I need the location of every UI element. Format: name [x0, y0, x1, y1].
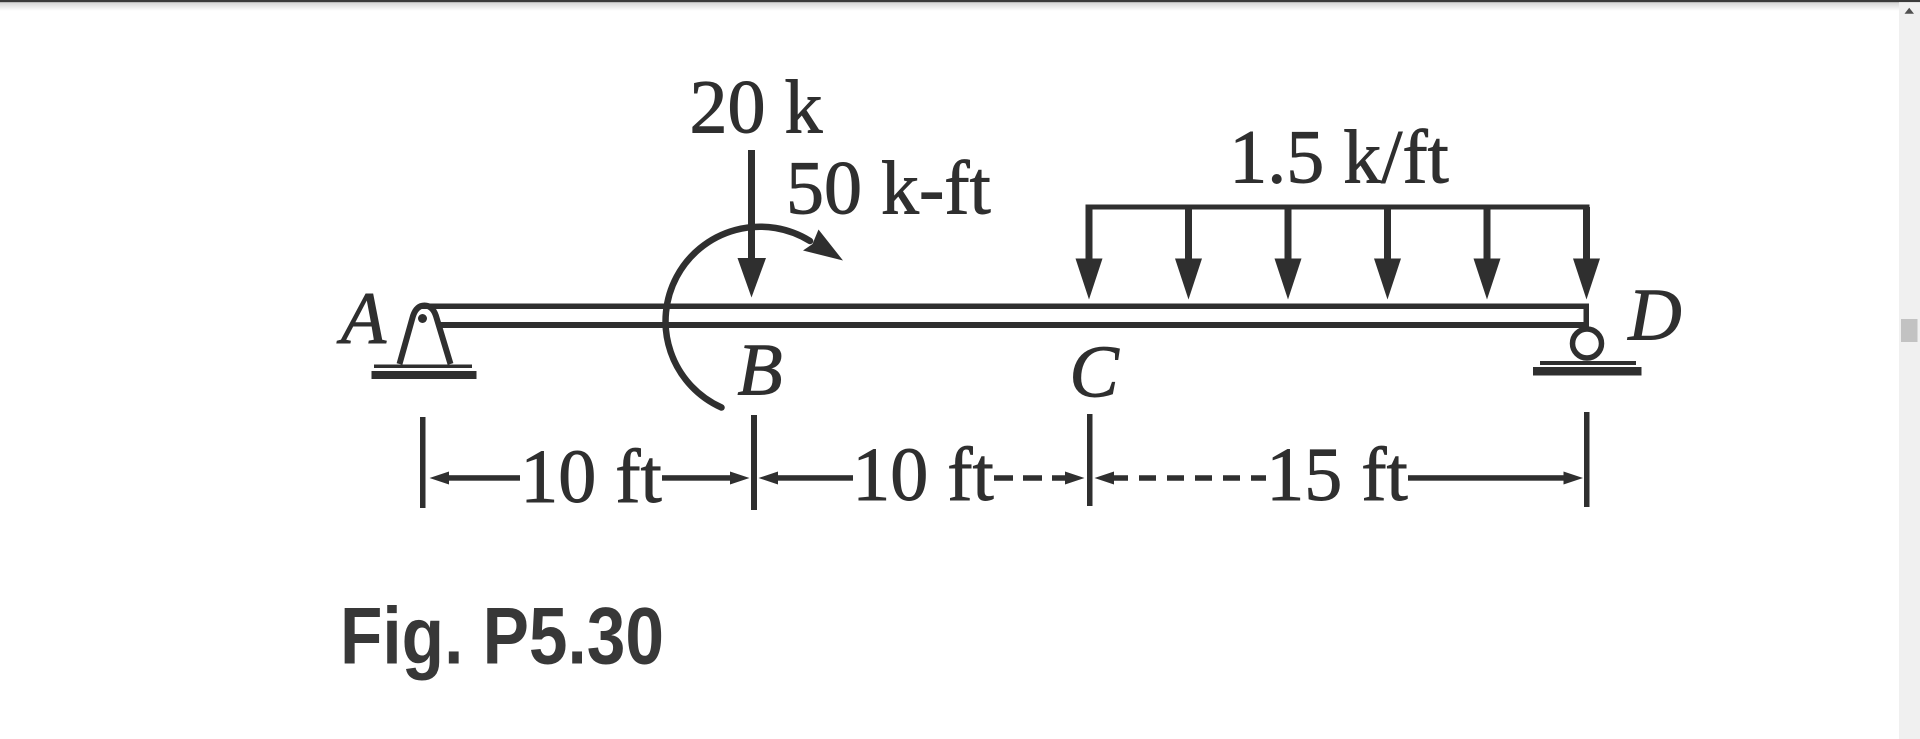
svg-text:10 ft: 10 ft	[852, 433, 993, 517]
svg-text:15 ft: 15 ft	[1266, 433, 1407, 517]
dimension segment B-C	[759, 472, 1085, 485]
dimension tick A	[420, 417, 426, 508]
top window bar	[0, 0, 1920, 2]
point load 20 k arrow	[738, 150, 767, 298]
pin support A	[372, 306, 477, 380]
roller support D	[1533, 329, 1642, 376]
dimension tick B	[751, 415, 757, 510]
scrollbar thumb	[1901, 319, 1918, 342]
beam top chord	[421, 304, 1589, 310]
svg-text:B: B	[737, 330, 782, 412]
scrollbar track	[1899, 2, 1920, 739]
moment arrow 50 k-ft	[666, 227, 843, 408]
svg-text:1.5 k/ft: 1.5 k/ft	[1229, 116, 1449, 200]
dimension segment A-B	[430, 472, 750, 485]
beam right end cap	[1584, 304, 1590, 328]
svg-text:A: A	[336, 278, 387, 360]
scrollbar up arrow	[1905, 8, 1915, 14]
distributed load 1.5 k/ft	[1076, 205, 1601, 300]
dimension tick C	[1087, 414, 1093, 506]
beam bottom chord	[437, 322, 1589, 328]
svg-text:Fig. P5.30: Fig. P5.30	[340, 592, 664, 682]
svg-text:20 k: 20 k	[690, 66, 823, 150]
dimension tick D	[1584, 412, 1590, 507]
svg-text:10 ft: 10 ft	[520, 435, 661, 519]
svg-text:C: C	[1069, 332, 1120, 414]
svg-text:D: D	[1627, 275, 1681, 357]
svg-text:50 k-ft: 50 k-ft	[786, 147, 991, 231]
dimension segment C-D	[1095, 472, 1584, 485]
